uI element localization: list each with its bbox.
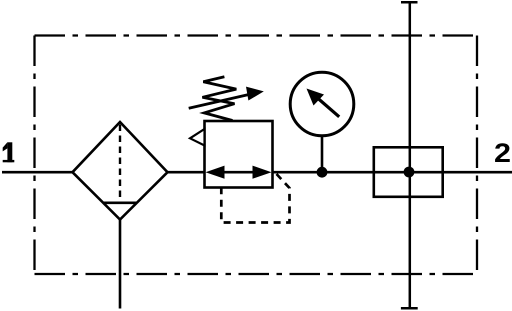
junction node (outlet center) [404, 167, 415, 178]
wire: filter to regulator [167, 171, 205, 174]
gauge G1 dial [290, 72, 354, 136]
filter drain separator chord [103, 202, 137, 205]
regulator adjustment spring [202, 77, 236, 121]
junction node (gauge tap) [317, 167, 328, 178]
wire: main flow line port 1 to filter [2, 171, 73, 174]
assembly line bottom cap [401, 307, 418, 310]
regulator arrowhead right [253, 166, 272, 179]
gauge needle arrowhead [307, 89, 325, 106]
gauge needle shaft [318, 98, 340, 117]
filter element (dashed centerline) [119, 125, 121, 202]
regulator arrowhead left [206, 166, 225, 179]
regulator adjustment arrow shaft [189, 94, 250, 108]
regulator relief vent triangle [190, 129, 205, 146]
regulator R1 body [205, 121, 273, 188]
filter F1 body (diamond) [73, 122, 168, 220]
enclosure (dash-dot assembly boundary) [35, 36, 478, 275]
wire: regulator to port 2 [272, 171, 512, 174]
svg-text:2: 2 [494, 139, 511, 169]
regulator flow path (double-headed arrow shaft) [215, 171, 262, 174]
wire: filter drain line [119, 220, 122, 309]
assembly line top cap [401, 1, 418, 4]
outlet module body (square) [374, 147, 443, 197]
port label 1 [3, 142, 15, 162]
assembly line (vertical) [409, 2, 412, 308]
gauge G1 stem [321, 136, 324, 172]
regulator adjustment arrowhead [246, 87, 264, 101]
pilot feedback line (dashed) [221, 174, 289, 223]
